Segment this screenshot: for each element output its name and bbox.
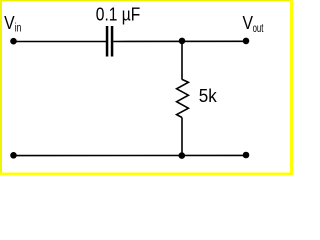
terminal dot Vout	[243, 38, 250, 45]
wire resistor lower lead	[181, 118, 183, 156]
node Vin label	[4, 13, 21, 35]
wire top left segment	[14, 41, 107, 43]
wire resistor upper lead	[181, 42, 183, 80]
wire top right segment	[113, 40, 246, 42]
node Vout label	[243, 13, 264, 35]
svg-text:5k: 5k	[199, 86, 218, 106]
resistor	[177, 79, 189, 117]
svg-text:0.1 µF: 0.1 µF	[96, 5, 141, 25]
svg-text:V: V	[4, 13, 15, 33]
terminal dot Vin	[10, 38, 17, 45]
terminal dot bottom right	[243, 152, 250, 159]
wire bottom	[14, 154, 247, 156]
junction dot top	[179, 38, 186, 45]
svg-text:out: out	[253, 23, 264, 35]
capacitor	[106, 26, 114, 57]
junction dot bottom	[179, 152, 186, 159]
terminal dot bottom left	[10, 152, 17, 159]
svg-text:V: V	[243, 13, 254, 33]
svg-text:in: in	[15, 23, 22, 35]
